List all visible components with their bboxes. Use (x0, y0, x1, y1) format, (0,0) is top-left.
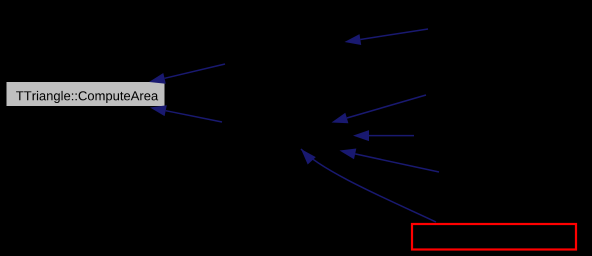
arrowhead (301, 149, 316, 165)
wire (347, 95, 426, 118)
arrowhead (345, 34, 362, 45)
arrowhead (150, 105, 167, 116)
truncated node (red box, bottom right) (412, 224, 576, 250)
edge E2 (upper arrow into gray box) (149, 64, 225, 84)
arrowhead (332, 113, 349, 124)
arrowhead (353, 130, 369, 141)
edge E4 (arrow to middle hidden node, from upper right) (332, 95, 427, 123)
node TTriangle::ComputeArea (gray box) (6, 82, 165, 107)
wire (166, 111, 222, 122)
wire (360, 29, 428, 40)
edge E1 (top arrow to hidden node) (345, 29, 429, 45)
edge E3 (lower arrow into gray box) (150, 105, 222, 122)
wire (curve) (301, 149, 436, 222)
wire (369, 135, 414, 137)
edge E6 (arrow to middle hidden node, from lower right) (340, 149, 440, 173)
edge E5 (horizontal arrow to middle hidden node) (353, 130, 414, 141)
edge E7 (curved arrow from red box to middle hidden node) (301, 149, 436, 222)
arrowhead (149, 73, 166, 84)
arrowhead (340, 149, 357, 160)
wire (355, 154, 439, 172)
wire (165, 64, 225, 78)
